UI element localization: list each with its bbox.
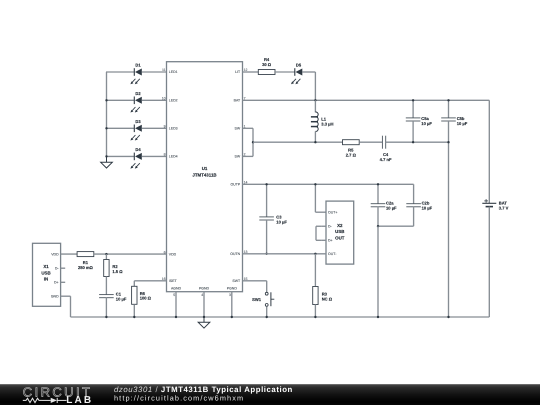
resistor R3 <box>313 254 333 317</box>
wire ISET <box>134 281 166 287</box>
svg-text:SW1: SW1 <box>252 297 262 302</box>
LED D1 <box>130 63 141 85</box>
svg-text:NC Ω: NC Ω <box>322 297 333 302</box>
wire SWT <box>243 281 267 292</box>
wire D5 to corner down to BAT line <box>302 72 315 100</box>
svg-text:LAB: LAB <box>66 395 93 405</box>
svg-text:X2: X2 <box>337 223 343 228</box>
svg-text:3.3 µH: 3.3 µH <box>321 122 333 127</box>
node R3 tap <box>314 253 316 255</box>
svg-text:30 Ω: 30 Ω <box>262 62 272 67</box>
LED D2 <box>130 91 141 113</box>
svg-text:LED4: LED4 <box>169 155 178 159</box>
U1 pin names left <box>169 70 178 283</box>
node C5b top <box>447 99 449 101</box>
connector X2 USB OUT <box>316 201 354 264</box>
wire R4 to D5 <box>275 71 295 73</box>
ground (main) <box>198 317 210 328</box>
node C2a top <box>377 183 379 185</box>
wire D2 row <box>106 99 167 101</box>
svg-text:OUT+: OUT+ <box>328 210 337 214</box>
wire D1 row <box>106 71 167 73</box>
resistor R4 <box>258 57 275 75</box>
node C5a bottom <box>412 141 414 143</box>
svg-text:5: 5 <box>173 293 175 297</box>
svg-text:10 µF: 10 µF <box>457 121 468 126</box>
svg-text:U1: U1 <box>202 166 208 171</box>
battery BAT <box>482 100 508 317</box>
wire D4 row <box>106 155 167 157</box>
wire LED cathode bus vertical <box>106 72 108 156</box>
capacitor C3 <box>259 184 287 254</box>
svg-text:LIT: LIT <box>235 70 241 74</box>
svg-text:1.5 Ω: 1.5 Ω <box>112 269 123 274</box>
wire C2 bottom link <box>378 225 414 227</box>
wire X1 GND down <box>61 296 71 317</box>
wire LIT to R4 <box>243 71 259 73</box>
svg-text:D+: D+ <box>328 239 333 243</box>
wire PGND drop 1 <box>203 292 205 317</box>
resistor R1 <box>77 252 94 270</box>
wire BAT line <box>243 99 490 101</box>
svg-text:SW: SW <box>235 127 241 131</box>
svg-text:OUTN: OUTN <box>230 252 240 256</box>
svg-text:BAT: BAT <box>234 99 241 103</box>
wire C4 to C5b bottom <box>386 141 449 143</box>
svg-text:11: 11 <box>162 68 166 72</box>
svg-text:D5: D5 <box>296 63 302 68</box>
node SW mid <box>252 141 254 143</box>
junction dots LED bus <box>105 99 107 157</box>
wire OUTN line <box>243 253 327 255</box>
svg-text:10 µF: 10 µF <box>421 121 432 126</box>
svg-text:JTMT4311B: JTMT4311B <box>192 173 216 178</box>
bus junction dots <box>105 316 449 318</box>
node C3 top <box>265 183 267 185</box>
svg-text:OUTP: OUTP <box>230 183 240 187</box>
U1 pin numbers <box>162 68 231 297</box>
wire SW node to R5 <box>253 141 343 143</box>
svg-text:GND: GND <box>51 294 59 298</box>
svg-text:3.7 V: 3.7 V <box>499 205 509 210</box>
svg-text:10 µF: 10 µF <box>116 297 127 302</box>
svg-text:D1: D1 <box>135 63 141 68</box>
capacitor C2a <box>371 184 397 226</box>
svg-text:PGND: PGND <box>199 287 210 291</box>
svg-text:D3: D3 <box>135 119 141 124</box>
svg-text:PGND: PGND <box>227 287 238 291</box>
logo resistor-diode squiggle <box>23 398 67 403</box>
svg-text:100 Ω: 100 Ω <box>140 296 152 301</box>
connector X1 USB IN <box>33 243 66 306</box>
resistor R2 <box>104 254 124 295</box>
node L1 bottom <box>314 141 316 143</box>
wire C2 ground drop <box>377 226 379 317</box>
svg-text:USB: USB <box>335 229 344 234</box>
wire R5 to C4 <box>359 141 382 143</box>
node OUT+ drop <box>314 183 316 185</box>
U1 pin names right <box>230 70 241 283</box>
svg-text:IN: IN <box>44 277 48 282</box>
svg-text:4: 4 <box>201 293 203 297</box>
node C2a bottom <box>377 225 379 227</box>
svg-text:8: 8 <box>164 153 166 157</box>
svg-text:10: 10 <box>162 97 166 101</box>
wire R1 to VDD pin <box>94 253 167 255</box>
LED D5 <box>291 63 302 85</box>
capacitor C5a <box>406 100 433 142</box>
svg-text:http://circuitlab.com/cw6mhxm: http://circuitlab.com/cw6mhxm <box>114 394 244 403</box>
svg-text:AGND: AGND <box>171 287 182 291</box>
ground (LED bus) <box>101 156 113 168</box>
svg-text:10 µF: 10 µF <box>276 220 287 225</box>
svg-text:250 mΩ: 250 mΩ <box>78 265 94 270</box>
wire ground bus <box>71 316 490 318</box>
svg-text:X1: X1 <box>43 264 49 269</box>
wire AGND drop <box>175 292 177 317</box>
node R2 tap <box>105 253 107 255</box>
capacitor C4 <box>380 136 392 162</box>
svg-text:9: 9 <box>164 125 166 129</box>
svg-text:LED3: LED3 <box>169 127 178 131</box>
wire OUTP line <box>243 183 414 185</box>
svg-text:2.7 Ω: 2.7 Ω <box>346 152 357 157</box>
wire D3 row <box>106 127 167 129</box>
svg-text:VDD: VDD <box>169 252 177 256</box>
resistor R5 <box>343 140 360 158</box>
svg-text:3: 3 <box>229 293 231 297</box>
switch SW1 <box>252 292 274 317</box>
svg-text:LED1: LED1 <box>169 70 178 74</box>
svg-text:10 µF: 10 µF <box>386 206 397 211</box>
inductor L1 <box>311 100 334 142</box>
svg-text:SWT: SWT <box>232 279 241 283</box>
svg-text:ISET: ISET <box>169 279 178 283</box>
capacitor C1 <box>99 292 127 317</box>
svg-text:SW: SW <box>235 155 241 159</box>
wire X2 OUT+ drop <box>315 184 326 212</box>
svg-text:LED2: LED2 <box>169 99 178 103</box>
capacitor C5b <box>441 100 468 317</box>
svg-text:4.7 nF: 4.7 nF <box>380 157 392 162</box>
footer bar <box>0 384 540 405</box>
LED D3 <box>130 119 141 141</box>
node BAT/L1 junction <box>314 99 316 101</box>
svg-text:D+: D+ <box>54 281 59 285</box>
LED D4 <box>130 147 141 169</box>
svg-text:D2: D2 <box>135 91 141 96</box>
svg-text:USB: USB <box>41 270 50 275</box>
wire X1 VDD to R1 <box>61 253 78 255</box>
svg-text:D4: D4 <box>135 147 141 152</box>
node C5a top <box>412 99 414 101</box>
svg-text:dzou3301 / JTMT4311B Typical A: dzou3301 / JTMT4311B Typical Application <box>114 385 293 394</box>
svg-text:10 µF: 10 µF <box>422 206 433 211</box>
svg-text:OUT-: OUT- <box>328 252 337 256</box>
IC U1 JTMT4311B <box>167 62 243 292</box>
node C3 bottom <box>265 253 267 255</box>
capacitor C2b <box>406 184 432 226</box>
U1 pin names bottom <box>171 287 237 291</box>
resistor R6 <box>132 286 152 317</box>
svg-text:OUT: OUT <box>335 235 345 240</box>
wire SW bracket <box>243 128 254 156</box>
svg-text:VDD: VDD <box>51 252 59 256</box>
node C5b bottom <box>447 141 449 143</box>
wire PGND drop 2 <box>231 292 233 317</box>
